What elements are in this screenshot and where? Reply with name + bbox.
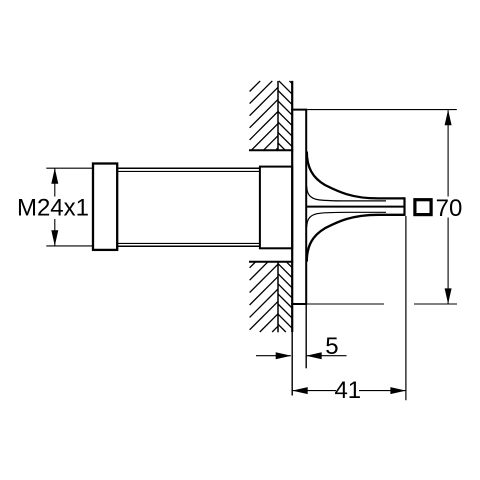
svg-text:41: 41: [334, 377, 361, 404]
threaded pipe thread inner bottom line: [117, 242, 260, 244]
dimension M24x1 arrow down: [51, 230, 58, 246]
dimension M24x1 top extension line: [46, 167, 93, 169]
spindle middle parting line: [306, 206, 404, 208]
dimension M24x1 bottom extension line: [46, 245, 93, 247]
wall hole upper edge line: [249, 149, 293, 151]
wall hatch middle boundary line lower: [277, 262, 279, 333]
trumpet inner bottom curve: [307, 212, 386, 226]
wall hole lower edge line: [249, 261, 293, 263]
spindle end cap line: [403, 197, 405, 216]
dimension M24x1 arrow up: [51, 168, 58, 184]
dimension 5 arrow pointing right: [276, 352, 292, 359]
dimension 5 arrow pointing left: [306, 352, 322, 359]
dimension 5 dimension line left tail: [256, 355, 291, 357]
dimension M24x1 dimension line: [54, 168, 56, 245]
dimension 70 arrow up: [445, 110, 452, 126]
dimension 70 bottom extension line segment a: [307, 303, 384, 305]
escutcheon plate bottom edge: [291, 303, 307, 305]
union nut cap on pipe left end: [93, 164, 117, 250]
escutcheon plate front face line: [305, 110, 307, 304]
dimension 70 dimension line: [447, 110, 449, 304]
dimension 41 right extension line: [405, 216, 407, 400]
svg-text:5: 5: [325, 333, 338, 360]
dimension 41 left extension line: [291, 332, 293, 396]
escutcheon plate top edge: [291, 109, 307, 111]
dimension 70 square symbol: [415, 200, 431, 215]
trumpet outer top curve: [307, 152, 405, 199]
svg-text:M24x1: M24x1: [17, 195, 89, 222]
dimension 41 dimension line: [292, 390, 406, 392]
trumpet inner top curve: [307, 187, 386, 201]
trumpet outer bottom curve: [307, 215, 405, 262]
threaded pipe outer bottom line: [117, 245, 260, 247]
dimension 70 bottom extension line segment b: [414, 303, 457, 305]
threaded pipe thread inner top line: [117, 170, 260, 172]
dimension 41 arrow pointing right: [390, 387, 406, 394]
valve body block in wall opening: [260, 167, 292, 249]
dimension 41 arrow pointing left: [292, 387, 308, 394]
dimension 70 arrow down: [445, 288, 452, 304]
dimension 5 extension line: [305, 305, 307, 368]
dimension 70 top extension line: [307, 109, 457, 111]
wall upper section coarse hatch: [250, 81, 278, 150]
svg-text:70: 70: [436, 195, 463, 222]
wall upper section fine hatch: [278, 81, 292, 150]
wall lower section coarse hatch: [250, 262, 278, 332]
dimension 5 dimension line right tail: [306, 355, 346, 357]
wall hatch middle boundary line upper: [277, 81, 279, 150]
threaded pipe outer top line: [117, 167, 260, 169]
wall lower section fine hatch: [278, 262, 292, 332]
wall face line: [291, 81, 293, 332]
